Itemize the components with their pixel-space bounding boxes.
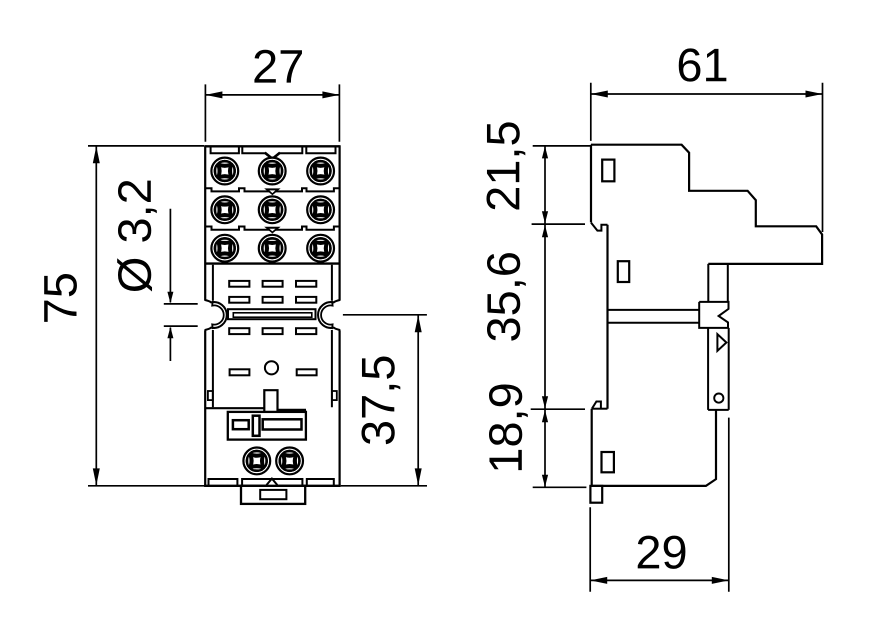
screw terminals 3x3 [211,158,238,185]
terminal row separator 2 [205,227,339,230]
arrow mark on separator 1 [264,188,280,195]
label diameter 3,2 [117,181,157,292]
clip block with notch [699,302,728,328]
dim 37,5 extension lines [341,315,427,486]
dim 29 arrowheads [590,577,729,584]
retaining clip bar [228,309,316,319]
latch lever [264,390,305,412]
floor line [205,407,264,409]
dim 27 extension lines [205,84,339,141]
dim 3,2 arrowheads [167,292,173,339]
label 75 [44,274,77,322]
contact slots row C [229,328,249,334]
upper step boot [591,223,608,231]
dim 75 line [95,146,97,485]
right retaining notch [318,300,340,330]
left retaining notch [205,300,227,330]
center hole [265,361,278,374]
dim 75 arrowheads [93,146,100,485]
label 18,9 [489,384,528,470]
lower rail [708,328,729,410]
bottom screws [243,448,270,475]
mid slots beside hole [230,369,250,375]
side wall holes [602,160,614,182]
label 29 [638,536,686,569]
right chain dim line [544,146,546,487]
label 21,5 [486,122,525,209]
chain 21,5 arrowheads [542,146,548,223]
socket body outline (front view) [205,145,339,147]
dim 61 line [591,93,823,95]
dim 29 extension lines [590,418,729,592]
side view stepped top profile [591,145,822,264]
arrow mark on separator 2 [264,227,280,234]
label 61 [679,48,727,81]
dim 61 extension lines [591,83,823,232]
bottom foot [590,486,602,503]
rail hole [714,394,723,403]
bottom rim segments [209,479,334,486]
inner side walls [212,265,214,407]
dim 37,5 arrowheads [415,315,422,485]
chain 18,9 arrowheads [542,410,548,487]
dim 27 line [205,94,339,96]
mid left wall [606,225,608,409]
side view upper left wall [590,145,592,223]
dim 61 arrowheads [591,91,823,98]
lower left wall and bottom [592,409,716,486]
top terminal cover tabs [211,147,239,153]
contact slots row A [229,281,249,287]
contact slots row B [229,297,249,303]
clip bar side view [608,310,700,323]
terminal row separator 1 [205,188,339,191]
dim 75 extension lines [88,146,205,486]
label 37,5 [361,357,400,445]
side wall clips [208,391,213,400]
dim 3,2 lines and ticks [169,209,171,361]
rim arrow mark [267,479,278,485]
dim 29 line [590,579,729,581]
dim 37,5 line [417,315,419,485]
label 35,6 [487,253,526,341]
upper rail channel [708,264,728,302]
chain 35,6 arrowheads [542,225,548,409]
lower step and tab [592,408,608,410]
rail arrow mark [717,334,726,351]
dim 27 arrowheads [205,91,339,98]
label carrier assembly [228,412,306,440]
screw block bottom line [205,262,339,264]
right chain extension lines [531,146,591,487]
bottom mounting tab [241,486,305,504]
label 27 [254,50,302,83]
